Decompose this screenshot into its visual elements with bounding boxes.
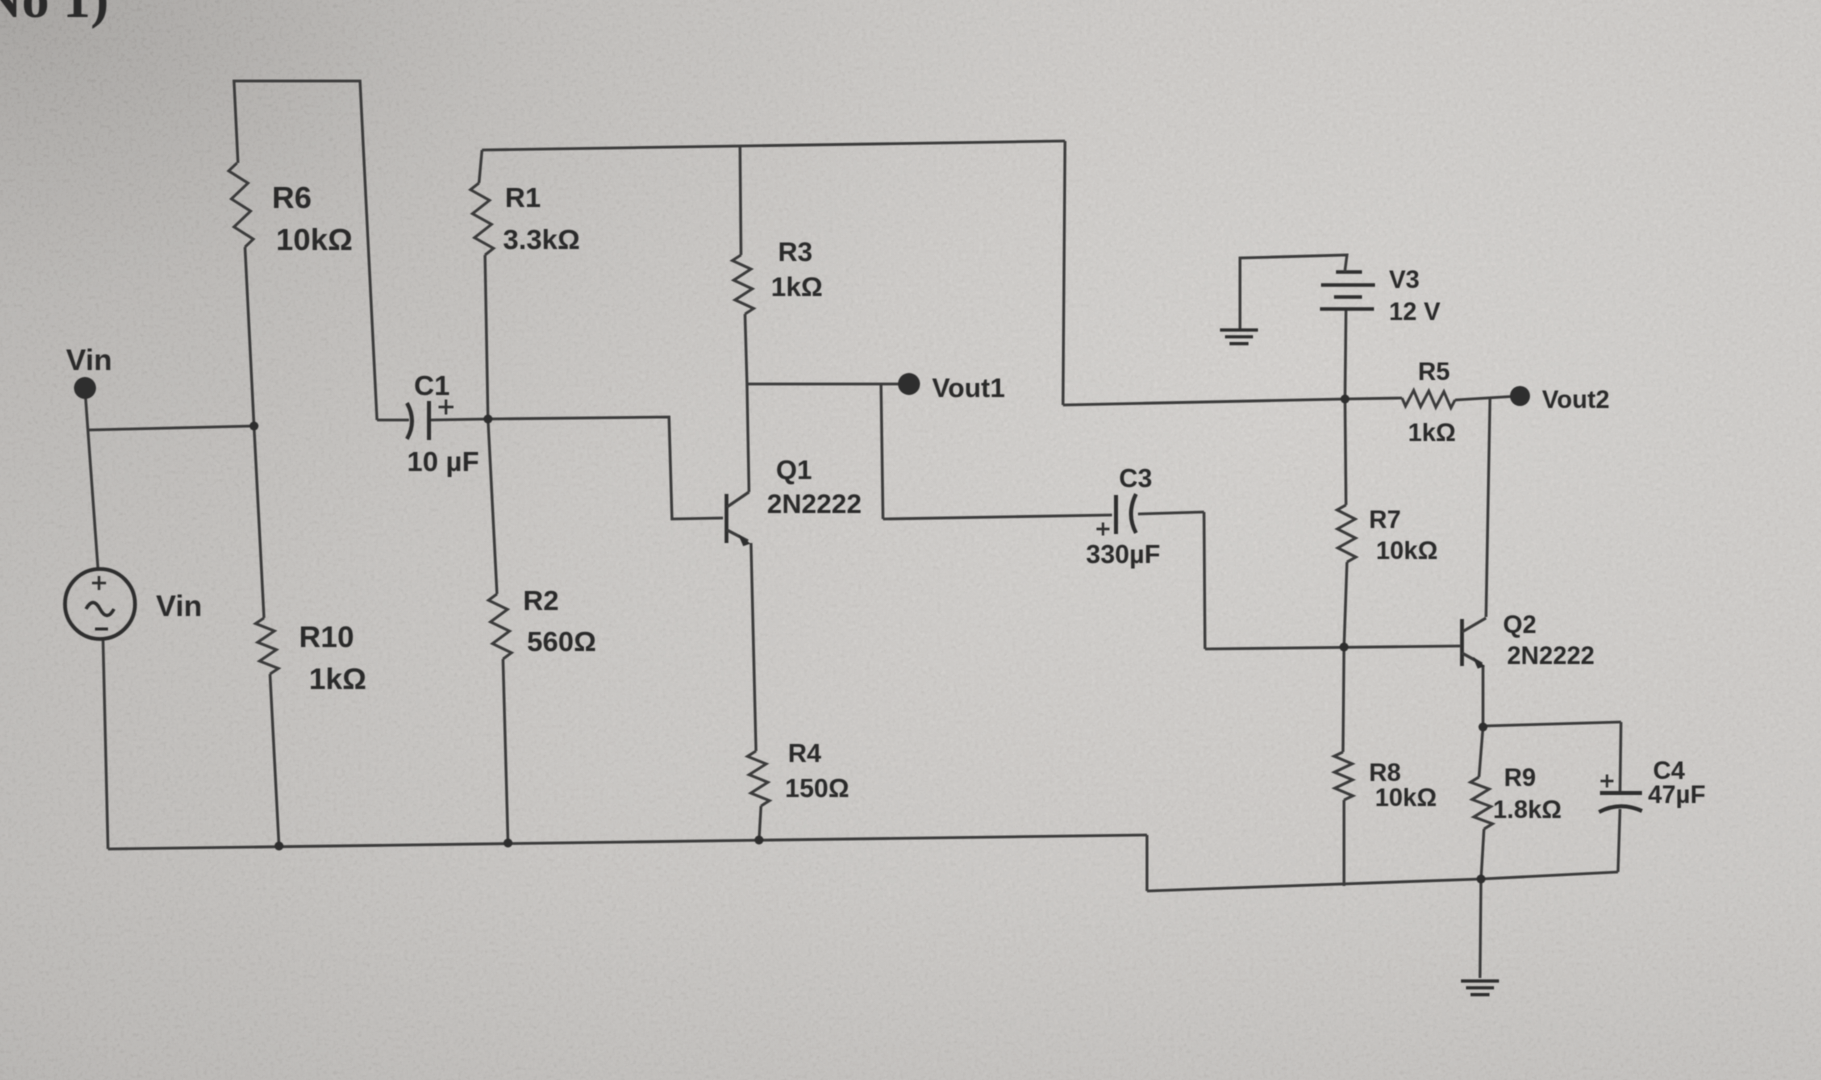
- svg-text:10kΩ: 10kΩ: [1376, 537, 1438, 565]
- wire: [1138, 512, 1204, 514]
- label Q2: [1503, 611, 1536, 639]
- label R10: [299, 621, 354, 654]
- wire: [482, 141, 1065, 150]
- resistor R8: [1334, 752, 1353, 800]
- svg-text:Vout2: Vout2: [1542, 386, 1610, 414]
- label V3: [1389, 266, 1420, 294]
- wire junction: [755, 836, 764, 845]
- svg-text:V3: V3: [1389, 266, 1420, 294]
- label R6: [272, 180, 312, 215]
- svg-text:Vout1: Vout1: [932, 373, 1005, 403]
- svg-text:47µF: 47µF: [1648, 781, 1705, 809]
- wire: [270, 674, 279, 846]
- label R9 value: [1493, 796, 1562, 824]
- label V3 value: [1389, 298, 1441, 326]
- svg-text:No 1): No 1): [0, 0, 109, 29]
- label R10 value: [309, 663, 366, 696]
- resistor R10: [256, 618, 279, 674]
- svg-text:2N2222: 2N2222: [767, 489, 862, 519]
- svg-text:C3: C3: [1119, 463, 1152, 493]
- label R4 value: [785, 773, 849, 803]
- label R9: [1504, 764, 1536, 792]
- svg-text:3.3kΩ: 3.3kΩ: [503, 224, 580, 255]
- resistor R7: [1337, 505, 1356, 562]
- wire: [759, 806, 761, 841]
- wire: [1343, 647, 1344, 752]
- wire: [1343, 800, 1346, 886]
- resistor R3: [732, 255, 753, 314]
- svg-text:R2: R2: [523, 585, 559, 616]
- svg-text:10 µF: 10 µF: [407, 446, 479, 477]
- title No 1): [0, 0, 109, 29]
- svg-text:R3: R3: [778, 237, 813, 267]
- wire: [254, 426, 264, 618]
- label R6 value: [276, 222, 353, 257]
- wire: [1620, 722, 1621, 792]
- label Vout2: [1542, 386, 1610, 414]
- svg-text:10kΩ: 10kΩ: [1375, 784, 1437, 812]
- svg-text:560Ω: 560Ω: [527, 626, 596, 657]
- svg-text:1.8kΩ: 1.8kΩ: [1493, 796, 1562, 824]
- label R7: [1369, 506, 1401, 534]
- wire: [485, 255, 488, 419]
- wire: [1344, 562, 1347, 647]
- svg-text:R6: R6: [272, 180, 312, 215]
- wire: [488, 417, 723, 519]
- resistor R1: [471, 183, 494, 255]
- label C3 value: [1086, 539, 1160, 569]
- label Q1: [776, 455, 812, 485]
- node Vout1: [898, 373, 920, 395]
- wire: [1345, 398, 1402, 399]
- label R5 value: [1408, 419, 1456, 447]
- resistor R5: [1402, 390, 1455, 408]
- label R2 value: [527, 626, 596, 657]
- resistor R9: [1471, 777, 1493, 829]
- svg-text:150Ω: 150Ω: [785, 773, 849, 803]
- battery V3: [1320, 270, 1375, 309]
- wire: [1240, 255, 1347, 329]
- wire: [431, 419, 488, 420]
- svg-text:12 V: 12 V: [1389, 298, 1441, 326]
- label C4 value: [1648, 781, 1705, 809]
- wire: [1483, 722, 1621, 726]
- wire: [747, 383, 909, 386]
- wire: [747, 384, 749, 492]
- label R2: [523, 585, 559, 616]
- wire junction: [1340, 643, 1349, 652]
- ground: [1220, 330, 1258, 344]
- svg-text:10kΩ: 10kΩ: [276, 222, 353, 257]
- label R5: [1418, 358, 1450, 386]
- svg-text:2N2222: 2N2222: [1507, 642, 1595, 670]
- svg-text:R1: R1: [505, 182, 541, 213]
- wire: [88, 426, 254, 430]
- wire: [488, 419, 497, 594]
- label Vin: [66, 344, 112, 377]
- label C1 value: [407, 446, 479, 477]
- wire: [245, 247, 254, 426]
- label Vin source: [156, 590, 202, 623]
- wire: [1147, 872, 1618, 891]
- wire junction: [275, 842, 284, 851]
- wire: [883, 515, 1112, 519]
- svg-text:1kΩ: 1kΩ: [309, 663, 366, 696]
- wire: [1479, 727, 1483, 777]
- wire: [85, 390, 98, 569]
- label R8 value: [1375, 784, 1437, 812]
- svg-text:R4: R4: [788, 738, 822, 768]
- node Vin: [74, 377, 96, 399]
- wire junction: [484, 415, 493, 424]
- ground: [1461, 981, 1499, 995]
- label R4: [788, 738, 822, 768]
- wire: [1486, 398, 1490, 617]
- wire: [1063, 399, 1345, 405]
- wire: [1480, 879, 1481, 978]
- label Vout1: [932, 373, 1005, 403]
- wire: [745, 314, 747, 384]
- wire: [103, 639, 108, 849]
- label R3: [778, 237, 813, 267]
- svg-text:R5: R5: [1418, 358, 1450, 386]
- wire: [1345, 399, 1346, 505]
- svg-text:C1: C1: [414, 370, 450, 401]
- wire: [503, 659, 508, 843]
- label C4: [1653, 757, 1685, 785]
- wire: [377, 419, 409, 422]
- wire: [1146, 835, 1149, 891]
- wire: [1063, 141, 1065, 405]
- transistor Q1: [727, 492, 750, 546]
- capacitor C4: [1599, 775, 1642, 813]
- svg-text:Q1: Q1: [776, 455, 812, 485]
- label R7 value: [1376, 537, 1438, 565]
- wire: [881, 384, 883, 519]
- wire: [1481, 829, 1484, 879]
- wire junction: [1479, 723, 1488, 732]
- resistor R2: [489, 594, 512, 659]
- svg-text:1kΩ: 1kΩ: [1408, 419, 1456, 447]
- wire junction: [250, 422, 259, 431]
- wire: [479, 150, 482, 183]
- wire junction: [1477, 875, 1486, 884]
- svg-text:1kΩ: 1kΩ: [771, 272, 823, 302]
- capacitor C1: [407, 400, 454, 441]
- label R8: [1369, 759, 1401, 787]
- svg-text:R7: R7: [1369, 506, 1401, 534]
- capacitor C3: [1097, 494, 1137, 536]
- svg-text:R9: R9: [1504, 764, 1536, 792]
- wire: [1345, 309, 1346, 399]
- wire: [740, 146, 741, 255]
- wire: [108, 835, 1147, 849]
- svg-text:330µF: 330µF: [1086, 539, 1160, 569]
- wire: [1205, 646, 1460, 649]
- svg-text:R8: R8: [1369, 759, 1401, 787]
- label R1 value: [503, 224, 580, 255]
- wire junction: [1341, 395, 1350, 404]
- resistor R6: [229, 163, 254, 247]
- resistor R4: [748, 751, 770, 806]
- wire: [751, 543, 756, 751]
- svg-text:R10: R10: [299, 621, 354, 654]
- node Vout2: [1510, 386, 1530, 406]
- wire junction: [504, 839, 513, 848]
- wire: [1482, 665, 1485, 727]
- wire: [234, 81, 377, 420]
- label R3 value: [771, 272, 823, 302]
- wire: [1618, 809, 1620, 872]
- svg-text:Vin: Vin: [156, 590, 202, 623]
- svg-text:Q2: Q2: [1503, 611, 1536, 639]
- label Q1 part: [767, 489, 862, 519]
- wire: [1455, 396, 1519, 400]
- wire: [1204, 512, 1205, 649]
- transistor Q2: [1462, 618, 1486, 668]
- label Q2 part: [1507, 642, 1595, 670]
- label R1: [505, 182, 541, 213]
- AC source Vin: [65, 569, 135, 639]
- label C3: [1119, 463, 1152, 493]
- label C1: [414, 370, 450, 401]
- svg-text:Vin: Vin: [66, 344, 112, 377]
